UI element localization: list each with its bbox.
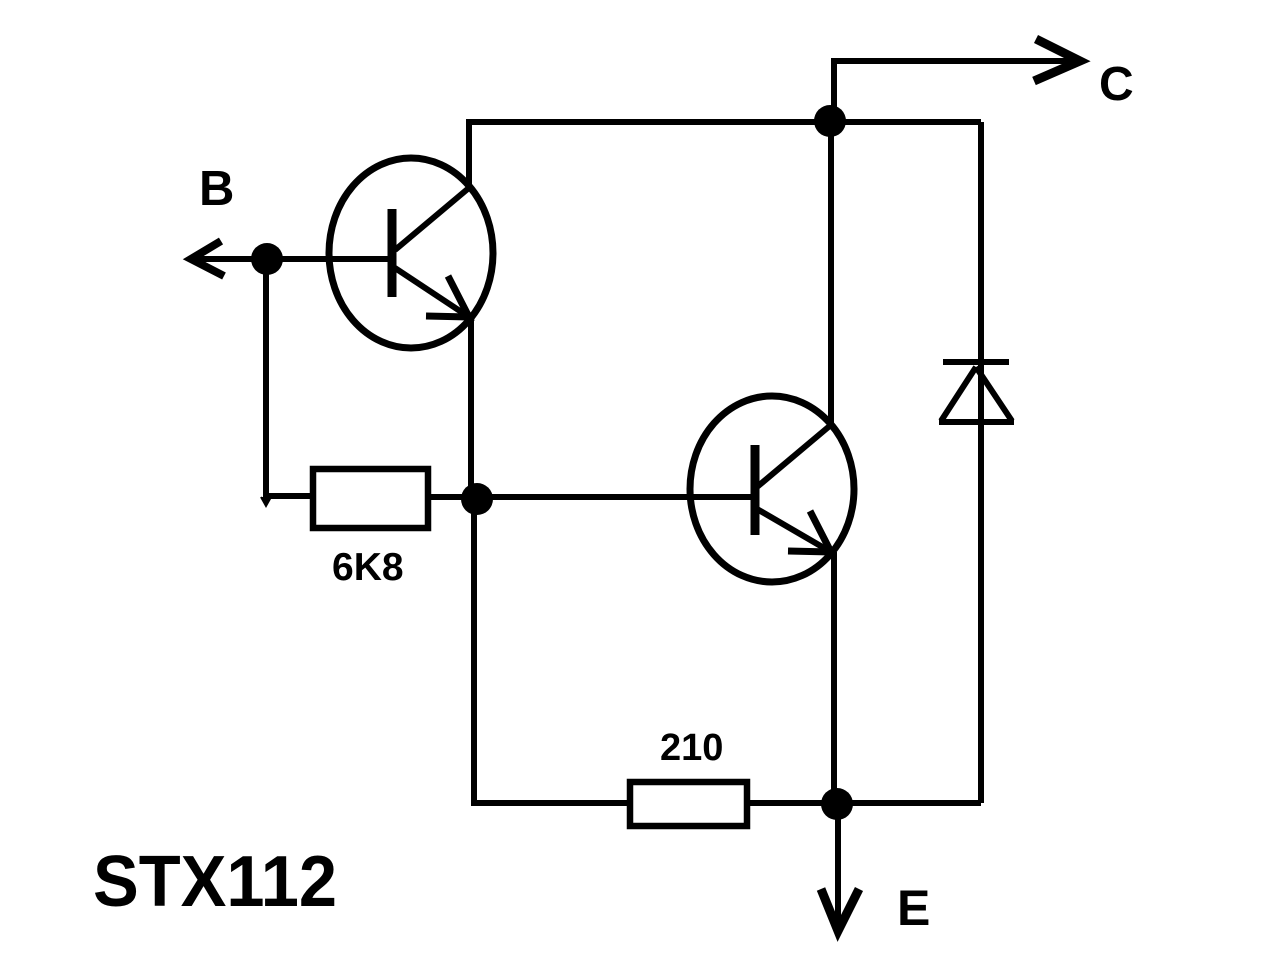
diode D1 (cathode up) bbox=[939, 362, 1014, 422]
svg-text:6K8: 6K8 bbox=[332, 546, 404, 589]
node: emitter/base junction bbox=[461, 483, 493, 515]
wire: 210 right lead bbox=[750, 800, 837, 806]
node: emitter junction bbox=[821, 788, 853, 820]
resistor R1 6K8 bbox=[313, 469, 428, 528]
arrowhead: C (open, pointing right) bbox=[1034, 39, 1080, 81]
wire: bottom rail left bbox=[471, 800, 627, 806]
wire: 6K8 right lead to Q2 base bbox=[431, 494, 753, 500]
resistor R2 210 bbox=[630, 782, 747, 826]
arrowhead: small tick at 6K8 corner bbox=[261, 497, 271, 506]
svg-text:210: 210 bbox=[660, 727, 723, 769]
wire: Q1 emitter down to junction bbox=[468, 317, 474, 499]
wire: bottom rail right bbox=[837, 800, 981, 806]
node: base junction bbox=[251, 243, 283, 275]
transistor Q2 bbox=[690, 396, 854, 582]
wire: C branch riser from node bbox=[831, 61, 837, 122]
wire: right column bbox=[978, 122, 984, 803]
wire: junction down to bottom rail bbox=[471, 499, 477, 806]
svg-text:STX112: STX112 bbox=[93, 842, 337, 922]
wire: Q2 collector riser bbox=[828, 122, 834, 424]
svg-text:E: E bbox=[897, 880, 930, 936]
wire: C lead bbox=[831, 58, 1072, 64]
wire: B lead to Q1 base bbox=[191, 256, 390, 262]
wire: Q2 emitter down to bottom node bbox=[831, 552, 837, 804]
arrowhead: B (open, pointing left) bbox=[191, 241, 224, 276]
node: collector junction bbox=[814, 105, 846, 137]
wire: top rail from Q1 collector to right column bbox=[466, 119, 981, 125]
wire: base node down to 6K8 bbox=[263, 259, 269, 499]
svg-text:B: B bbox=[199, 162, 234, 216]
wire: 6K8 left lead bbox=[263, 493, 310, 499]
svg-text:C: C bbox=[1099, 58, 1134, 111]
wire: Q1 collector riser bbox=[466, 122, 472, 185]
wire: E lead down bbox=[835, 804, 841, 928]
transistor Q1 bbox=[329, 158, 493, 348]
arrowhead: E (open, pointing down) bbox=[821, 889, 859, 931]
